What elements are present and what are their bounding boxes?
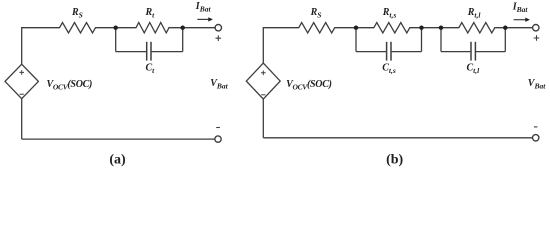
svg-text:(b): (b) [386, 152, 403, 167]
svg-text:(a): (a) [109, 152, 126, 167]
